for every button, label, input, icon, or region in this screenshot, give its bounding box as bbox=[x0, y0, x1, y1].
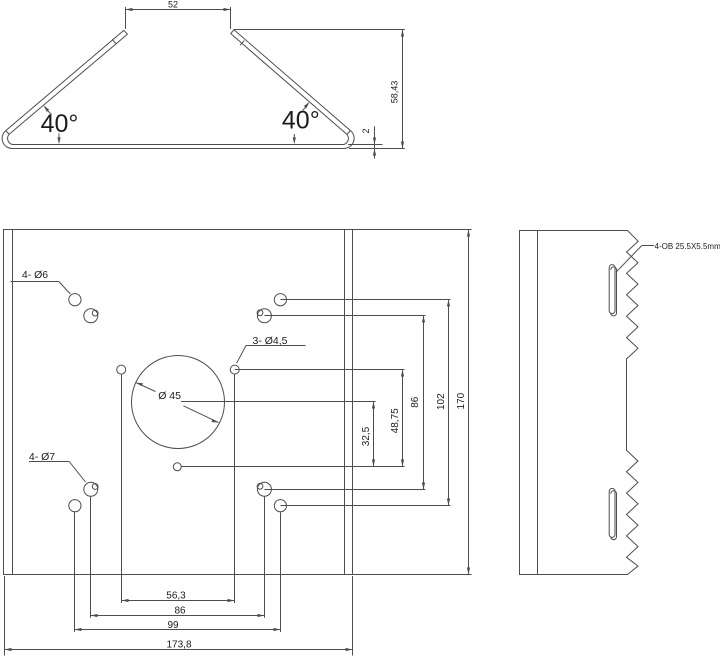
svg-text:4- Ø6: 4- Ø6 bbox=[22, 269, 48, 281]
svg-text:Ø 45: Ø 45 bbox=[158, 390, 181, 402]
svg-text:86: 86 bbox=[410, 396, 421, 408]
svg-text:2: 2 bbox=[361, 128, 371, 133]
svg-text:32,5: 32,5 bbox=[361, 426, 372, 446]
svg-text:99: 99 bbox=[167, 620, 179, 631]
svg-text:170: 170 bbox=[456, 392, 467, 409]
svg-text:4-OB 25.5X5.5mm: 4-OB 25.5X5.5mm bbox=[655, 242, 720, 251]
svg-text:86: 86 bbox=[174, 606, 186, 617]
svg-text:56,3: 56,3 bbox=[166, 590, 186, 601]
svg-text:58,43: 58,43 bbox=[390, 81, 400, 104]
svg-text:102: 102 bbox=[436, 393, 447, 410]
svg-text:48,75: 48,75 bbox=[390, 408, 401, 433]
svg-text:173,8: 173,8 bbox=[166, 639, 191, 650]
svg-text:40°: 40° bbox=[282, 107, 320, 135]
svg-text:52: 52 bbox=[168, 0, 178, 9]
